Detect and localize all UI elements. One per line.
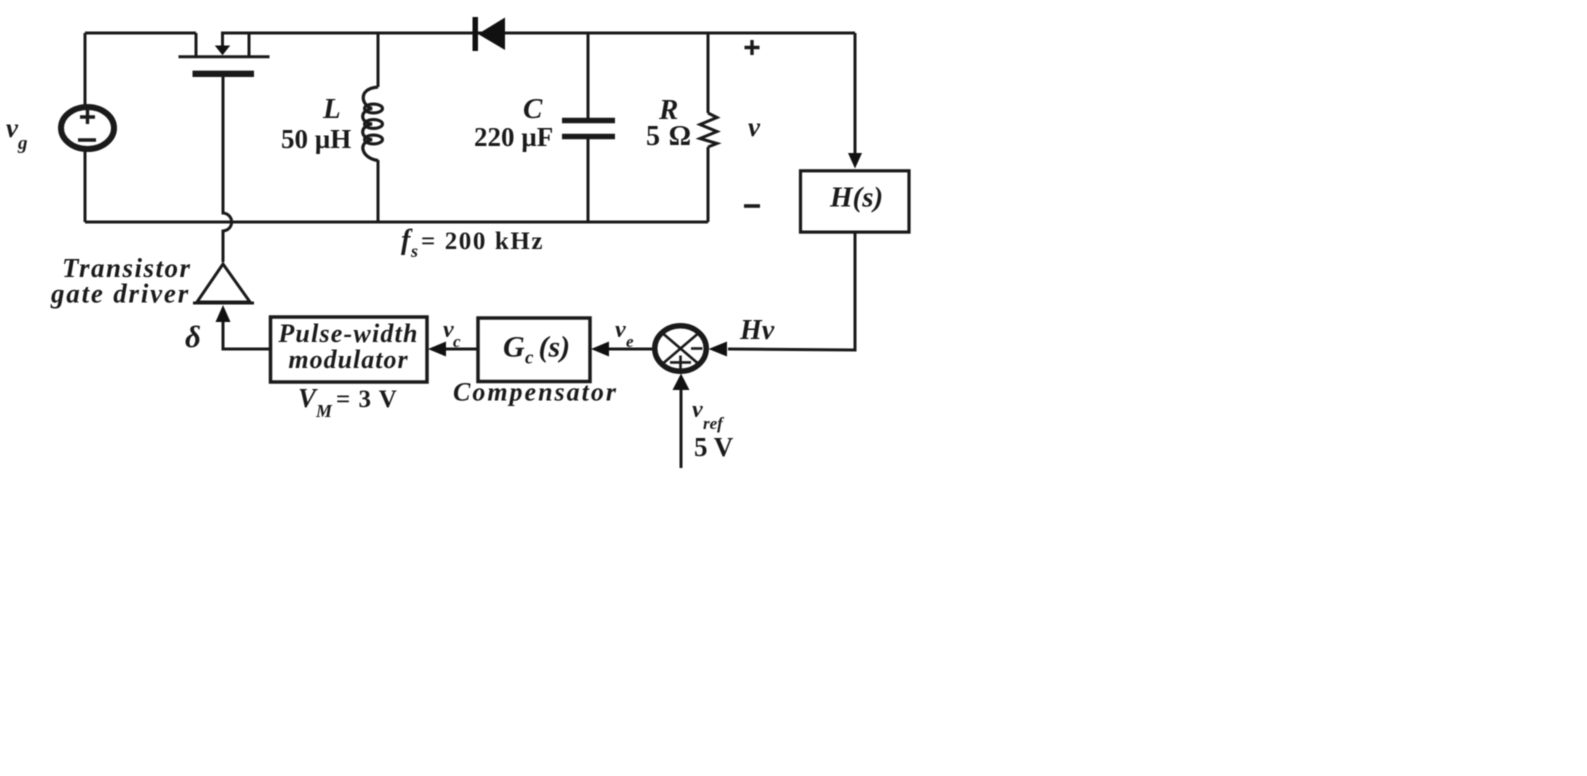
svg-text:H(s): H(s) — [829, 182, 883, 214]
svg-text:(s): (s) — [539, 331, 571, 364]
svg-text:ref: ref — [703, 414, 725, 433]
svg-text:C: C — [523, 93, 543, 125]
svg-text:= 200 kHz: = 200 kHz — [421, 228, 544, 255]
svg-text:Pulse-width: Pulse-width — [277, 319, 418, 348]
svg-text:gate driver: gate driver — [50, 279, 190, 309]
svg-text:220 µF: 220 µF — [474, 122, 553, 152]
svg-text:δ: δ — [185, 319, 201, 354]
svg-text:g: g — [17, 133, 28, 154]
svg-text:L: L — [322, 93, 341, 125]
svg-text:v: v — [692, 397, 703, 423]
svg-text:= 3 V: = 3 V — [336, 386, 398, 413]
svg-text:Hv: Hv — [739, 315, 775, 346]
svg-text:50 µH: 50 µH — [281, 124, 351, 154]
svg-text:v: v — [615, 317, 626, 343]
svg-text:v: v — [748, 112, 761, 142]
svg-text:V: V — [298, 383, 318, 413]
svg-text:c: c — [453, 332, 461, 351]
svg-text:G: G — [503, 331, 525, 364]
svg-text:s: s — [410, 241, 418, 261]
svg-text:c: c — [525, 348, 534, 369]
svg-text:Compensator: Compensator — [453, 378, 618, 407]
svg-text:5 Ω: 5 Ω — [646, 121, 692, 152]
svg-text:modulator: modulator — [288, 345, 408, 374]
svg-text:5 V: 5 V — [694, 432, 734, 462]
svg-text:e: e — [626, 332, 634, 351]
svg-text:M: M — [315, 401, 333, 421]
